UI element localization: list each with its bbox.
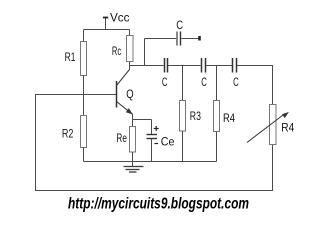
svg-text:http://mycircuits9.blogspot.co: http://mycircuits9.blogspot.com [68,195,249,212]
svg-text:Ce: Ce [161,135,175,149]
svg-text:Q: Q [126,87,134,101]
svg-text:R4: R4 [281,121,294,135]
svg-text:Rc: Rc [112,44,121,58]
svg-text:C: C [201,75,207,89]
svg-text:R4: R4 [223,111,235,125]
svg-text:C: C [176,18,183,32]
svg-text:R2: R2 [62,127,74,141]
svg-text:Vcc: Vcc [110,11,130,25]
svg-text:C: C [162,75,168,89]
svg-text:R3: R3 [190,109,201,123]
svg-text:Re: Re [116,131,127,145]
svg-text:R1: R1 [65,50,76,64]
svg-text:C: C [233,75,239,89]
